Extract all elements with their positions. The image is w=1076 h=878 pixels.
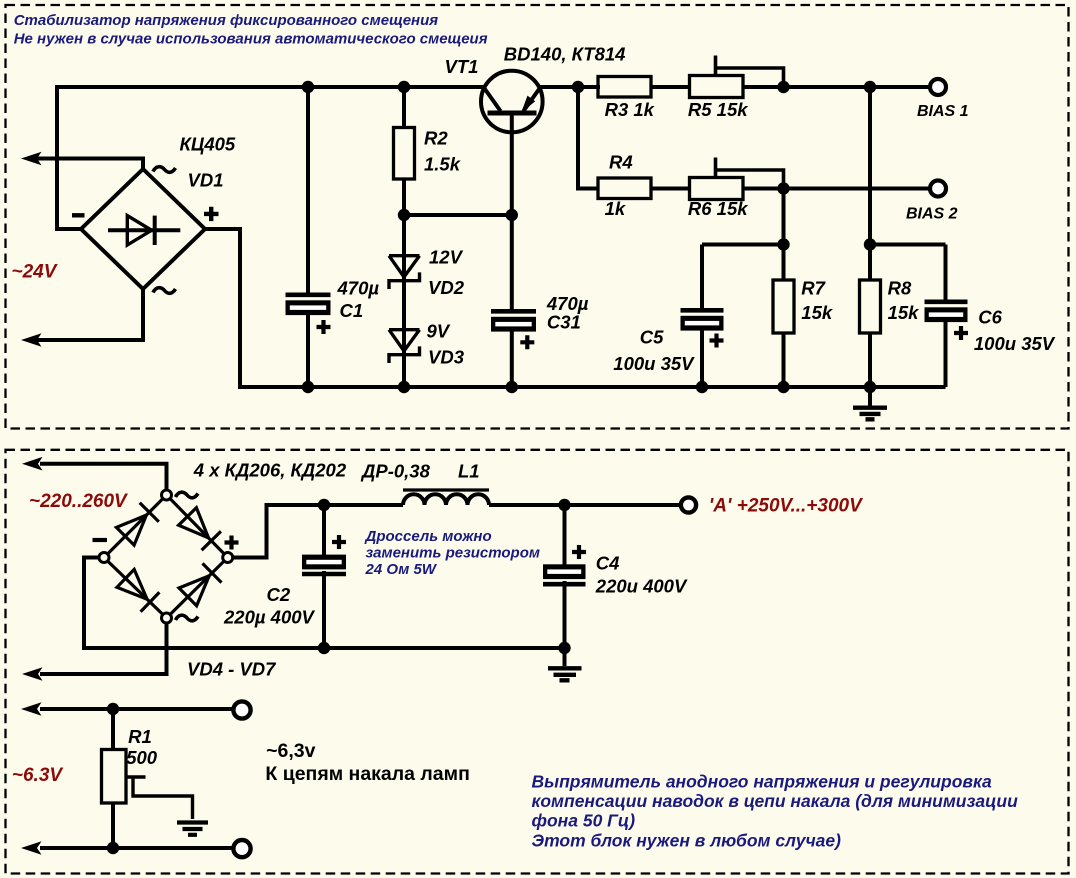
- trimmer R5: [690, 56, 784, 98]
- wire C5 bottom lead: [700, 325, 704, 387]
- svg-text:Этот блок нужен в любом случае: Этот блок нужен в любом случае): [532, 831, 842, 851]
- wire C5 top: [702, 243, 784, 247]
- wire plus up to top rail: [233, 505, 404, 558]
- transistor VT1 emitter arrow: [521, 96, 535, 113]
- wire R5 right to BIAS1: [743, 85, 930, 89]
- svg-text:C2: C2: [267, 584, 291, 605]
- junction C6 top: [864, 238, 876, 250]
- transistor VT1: [481, 71, 543, 133]
- wire node R2-emitter: [404, 213, 512, 217]
- svg-text:9V: 9V: [427, 321, 451, 342]
- BOX2 dashed frame: [6, 450, 1069, 874]
- bridge VD4-VD7 diamond: [104, 495, 228, 618]
- R1 wiper tap: [126, 777, 193, 819]
- arrow AC2: [21, 333, 42, 347]
- terminal heater bottom: [233, 840, 250, 857]
- svg-text:R3 1k: R3 1k: [605, 99, 656, 120]
- svg-text:C31: C31: [547, 312, 581, 333]
- junction C2 bottom: [318, 642, 330, 654]
- svg-text:Выпрямитель анодного напряжени: Выпрямитель анодного напряжения и регули…: [532, 772, 993, 792]
- svg-text:C6: C6: [978, 306, 1002, 327]
- wire R3 left lead: [578, 85, 598, 89]
- junction R3 node: [572, 81, 584, 93]
- arrow lower AC2: [22, 667, 43, 681]
- junction R7 top: [777, 238, 789, 250]
- choke L1: [403, 494, 489, 505]
- terminal heater top: [233, 701, 250, 718]
- wire heater top: [40, 707, 233, 711]
- svg-text:VT1: VT1: [445, 56, 479, 77]
- terminal A: [681, 497, 696, 512]
- svg-text:1.5k: 1.5k: [424, 153, 462, 174]
- junction R7 bottom rail: [777, 381, 789, 393]
- svg-text:C4: C4: [596, 553, 620, 574]
- junction R1 bottom: [107, 842, 119, 854]
- svg-text:Дроссель можно: Дроссель можно: [364, 528, 492, 545]
- junction R1 top: [107, 703, 119, 715]
- bridge VD1 inner diode: [108, 216, 180, 245]
- svg-text:R1: R1: [128, 726, 152, 747]
- resistor R3: [598, 77, 651, 98]
- resistor R4: [598, 178, 651, 199]
- wire C31 bottom lead: [510, 329, 514, 387]
- wire vertical to R4: [578, 87, 598, 189]
- vertex ring left: [99, 553, 109, 563]
- wire AC2 lower: [40, 623, 167, 674]
- svg-text:КЦ405: КЦ405: [180, 134, 236, 155]
- wire C6 branch: [944, 245, 948, 388]
- junction R5 wiper node: [777, 81, 789, 93]
- wire C5 branch: [700, 245, 704, 310]
- bridge2 plus sign: [225, 536, 239, 550]
- trimmer R6: [690, 158, 784, 200]
- svg-text:Не нужен в случае использовани: Не нужен в случае использования автомати…: [14, 30, 488, 47]
- wire choke to A: [489, 503, 681, 507]
- ground C4: [548, 668, 582, 680]
- wire C1 branch top: [306, 87, 310, 294]
- svg-text:L1: L1: [458, 461, 480, 482]
- wire bottom rail: [238, 385, 946, 389]
- svg-text:~6,3v: ~6,3v: [266, 740, 315, 762]
- junction C5 bottom rail: [696, 381, 708, 393]
- wire R7 leads: [782, 245, 786, 388]
- terminal BIAS2: [930, 181, 946, 197]
- bridge2 minus sign: [93, 538, 108, 542]
- tilde lower top: [176, 492, 199, 498]
- svg-text:4 x КД206, КД202: 4 x КД206, КД202: [193, 459, 347, 480]
- svg-text:VD2: VD2: [428, 277, 465, 298]
- svg-text:C1: C1: [340, 300, 364, 321]
- junction VD3 bottom rail: [398, 381, 410, 393]
- tilde bottom: [153, 288, 176, 294]
- svg-text:~24V: ~24V: [12, 261, 58, 282]
- junction C4 bottom / ground node: [558, 642, 570, 654]
- tilde top: [153, 167, 176, 173]
- wire R4-R6: [651, 187, 690, 191]
- capacitor C1: [286, 295, 331, 334]
- junction R2 bottom node: [398, 209, 410, 221]
- resistor R2: [394, 128, 415, 180]
- svg-text:BIAS 1: BIAS 1: [917, 103, 969, 120]
- svg-text:BIAS 2: BIAS 2: [906, 206, 958, 223]
- svg-text:заменить резистором: заменить резистором: [366, 545, 540, 562]
- vertex ring bottom: [162, 613, 172, 623]
- wire C2 branch: [322, 505, 326, 648]
- vertex ring top: [162, 490, 172, 500]
- diode VD6 bottom-left: [117, 569, 159, 611]
- svg-text:220u 400V: 220u 400V: [595, 575, 688, 596]
- junction R2 top rail: [398, 81, 410, 93]
- wire bottom rail lower: [82, 646, 565, 650]
- svg-text:Стабилизатор напряжения фиксир: Стабилизатор напряжения фиксированного с…: [14, 12, 439, 29]
- wire R6 right to BIAS2: [743, 187, 929, 191]
- resistor R7: [773, 280, 794, 333]
- arrow heater top: [21, 702, 42, 716]
- wire R8 column: [868, 87, 872, 406]
- junction emitter node: [506, 209, 518, 221]
- svg-text:500: 500: [126, 747, 158, 768]
- wire left rail down to bridge minus: [57, 85, 84, 229]
- wire C1 branch bottom: [306, 310, 310, 387]
- wire R2 bottom lead: [402, 179, 406, 215]
- wire C4 branch: [563, 505, 567, 666]
- wire top rail right: [540, 85, 600, 89]
- capacitor C31: [491, 311, 536, 349]
- wire emitter down to C31: [510, 115, 514, 310]
- svg-text:470µ: 470µ: [337, 277, 380, 298]
- svg-text:ДР-0,38: ДР-0,38: [360, 461, 431, 482]
- junction R8 column top: [864, 81, 876, 93]
- junction R8 ground node: [864, 381, 876, 393]
- ground R1: [177, 823, 208, 835]
- svg-text:VD1: VD1: [188, 170, 224, 191]
- svg-text:C5: C5: [640, 326, 664, 347]
- wire AC input 2: [36, 289, 143, 340]
- svg-text:компенсации наводок в цепи нак: компенсации наводок в цепи накала (для м…: [532, 791, 1019, 811]
- wire R6 node down: [782, 189, 786, 245]
- zener VD3: [389, 330, 420, 363]
- capacitor C5: [681, 310, 724, 347]
- svg-text:R7: R7: [801, 278, 826, 299]
- svg-text:12V: 12V: [429, 247, 464, 268]
- wire AC input 1: [36, 159, 143, 170]
- wire R2 top lead: [402, 87, 406, 128]
- svg-text:R5 15k: R5 15k: [688, 99, 749, 120]
- BOX1 dashed frame: [6, 5, 1069, 429]
- svg-text:100u 35V: 100u 35V: [613, 353, 695, 374]
- ground box1: [853, 408, 887, 420]
- svg-text:15k: 15k: [888, 302, 921, 323]
- svg-text:фона 50 Гц): фона 50 Гц): [532, 811, 636, 831]
- svg-text:R8: R8: [888, 278, 912, 299]
- capacitor C6: [925, 302, 969, 340]
- bridge VD1 diamond: [81, 169, 205, 289]
- choke core line: [403, 488, 489, 491]
- wire minus to bottom rail: [84, 558, 99, 651]
- svg-text:BD140, КТ814: BD140, КТ814: [504, 44, 626, 65]
- zener VD2: [389, 256, 420, 289]
- junction C2 top: [318, 499, 330, 511]
- wire R3-R5: [651, 85, 690, 89]
- junction C1 top rail: [302, 81, 314, 93]
- svg-text:100u 35V: 100u 35V: [974, 333, 1056, 354]
- arrow heater bottom: [21, 841, 42, 855]
- diode VD7 bottom-right: [179, 563, 222, 605]
- terminal BIAS1: [930, 79, 946, 95]
- svg-text:К цепям накала ламп: К цепям накала ламп: [265, 763, 469, 785]
- svg-text:R6 15k: R6 15k: [688, 198, 749, 219]
- tilde lower bottom: [176, 615, 199, 621]
- wire R1 leads: [111, 709, 115, 848]
- svg-text:VD3: VD3: [428, 347, 465, 368]
- svg-text:~6.3V: ~6.3V: [12, 765, 64, 786]
- svg-text:'A' +250V...+300V: 'A' +250V...+300V: [709, 496, 863, 517]
- vertex ring right: [223, 553, 233, 563]
- junction C1 bottom rail: [302, 381, 314, 393]
- resistor R1: [102, 750, 127, 804]
- bridge minus sign: [72, 213, 85, 217]
- svg-text:220µ 400V: 220µ 400V: [223, 606, 316, 627]
- wire top rail left: [55, 85, 484, 89]
- diode VD5 top-right: [179, 508, 221, 551]
- wire bridge plus output: [205, 229, 240, 389]
- svg-text:24 Ом 5W: 24 Ом 5W: [365, 561, 438, 578]
- svg-text:1k: 1k: [605, 198, 627, 219]
- bridge plus sign: [204, 207, 219, 221]
- junction C31 bottom rail: [506, 381, 518, 393]
- capacitor C2: [302, 535, 346, 574]
- svg-text:R4: R4: [609, 152, 633, 173]
- wire zener chain: [402, 215, 406, 387]
- svg-text:~220..260V: ~220..260V: [29, 491, 128, 512]
- svg-text:VD4 - VD7: VD4 - VD7: [187, 659, 277, 680]
- wire AC1 lower: [40, 464, 167, 490]
- arrow AC1: [21, 152, 42, 166]
- wire heater bottom: [40, 846, 233, 850]
- resistor R8: [860, 280, 881, 333]
- junction C4 top: [558, 499, 570, 511]
- diode VD4 top-left: [116, 503, 158, 545]
- wire C6 top: [870, 243, 946, 247]
- junction R6 wiper node: [777, 182, 789, 194]
- arrow lower AC1: [22, 457, 43, 471]
- svg-text:R2: R2: [424, 128, 448, 149]
- svg-text:15k: 15k: [801, 302, 834, 323]
- capacitor C4: [543, 545, 586, 584]
